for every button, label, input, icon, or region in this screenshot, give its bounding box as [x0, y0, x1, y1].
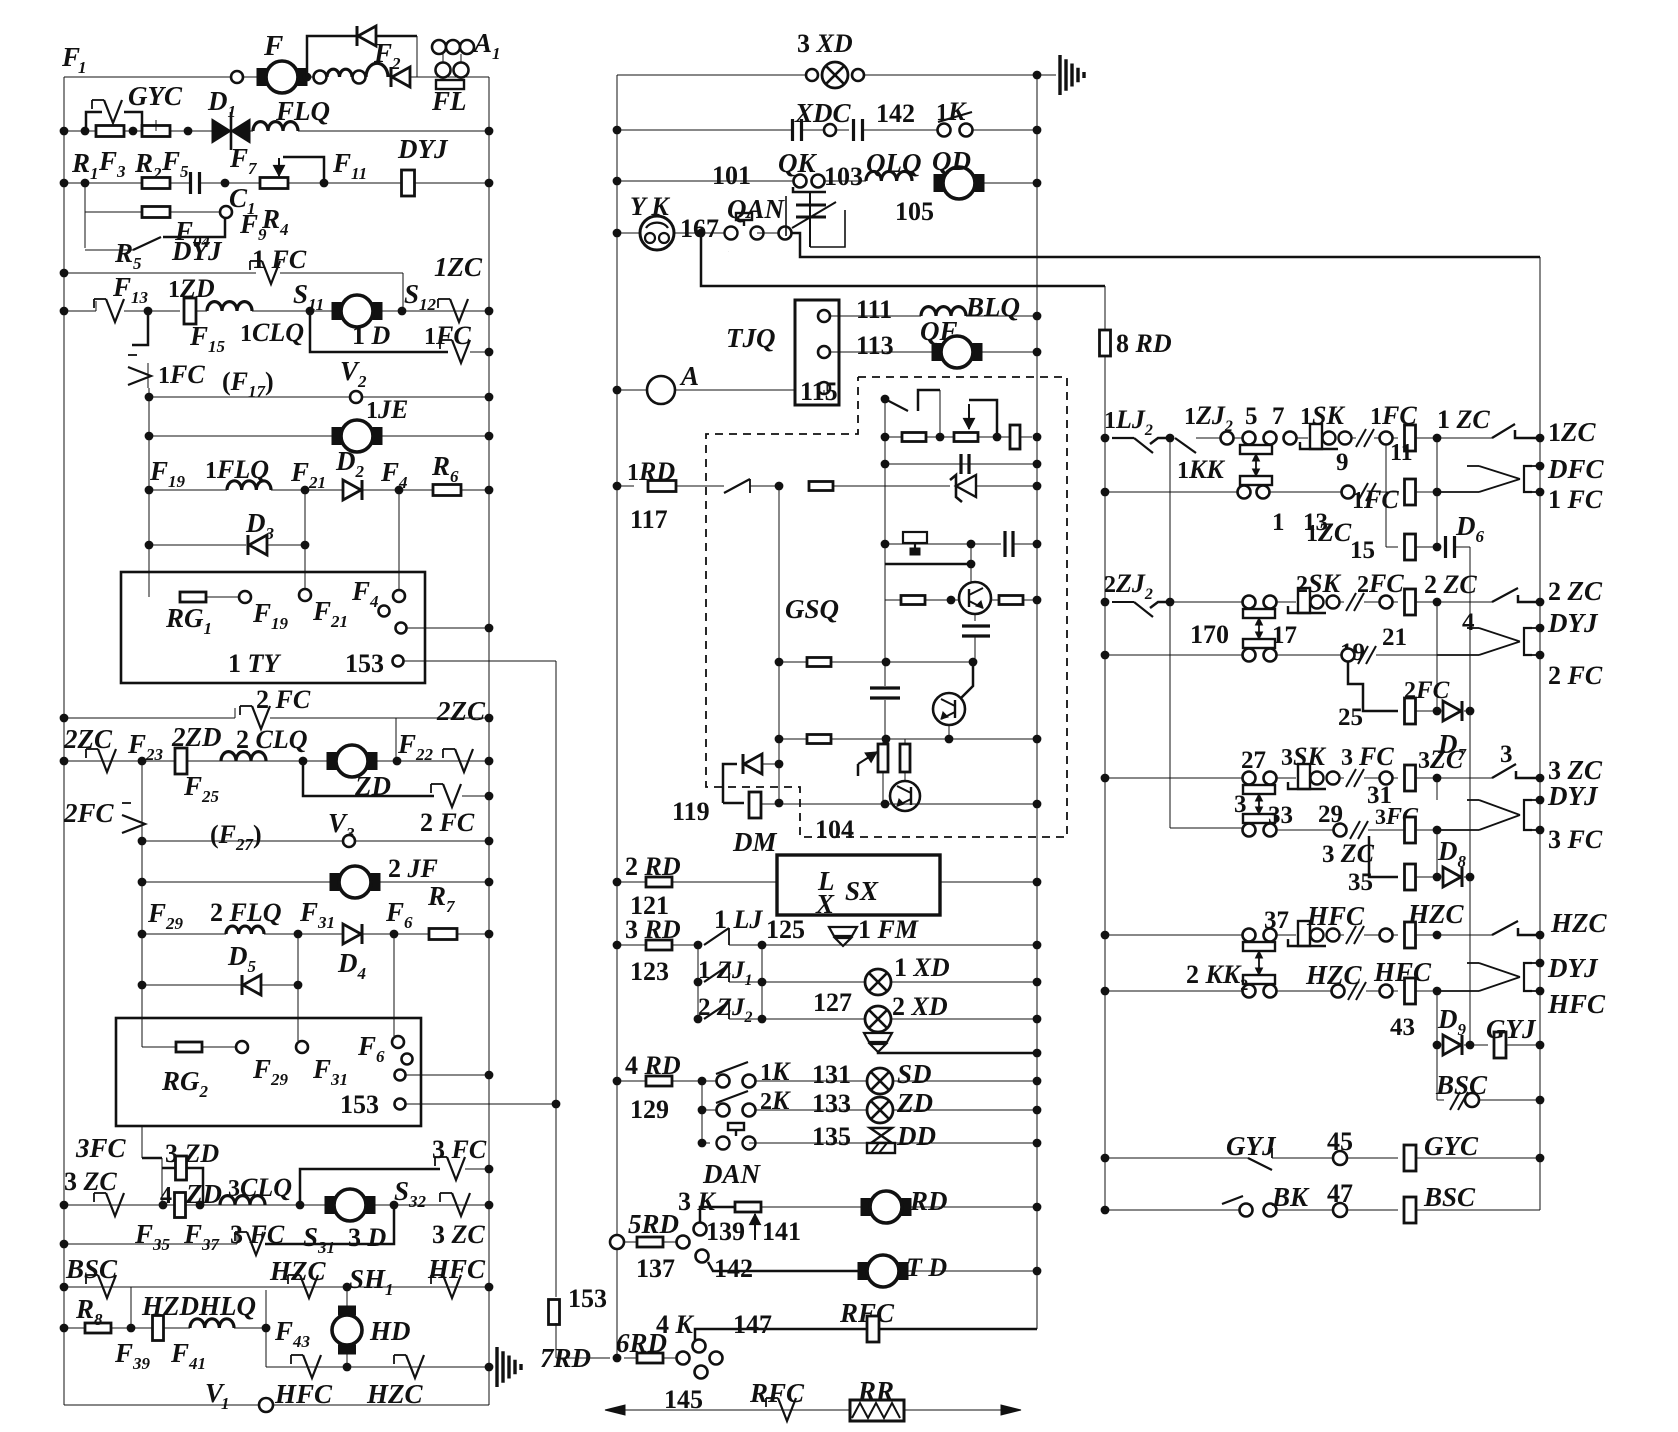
svg-text:BSC: BSC [1423, 1182, 1476, 1212]
svg-text:DYJ: DYJ [1547, 953, 1599, 983]
transistor GSQ V1 [959, 582, 991, 614]
terminal 1KK l [1238, 486, 1251, 499]
wire row390 [617, 389, 647, 391]
svg-text:HFC: HFC [1547, 989, 1606, 1019]
node [698, 1139, 707, 1148]
svg-text:2 RD: 2 RD [625, 852, 681, 881]
svg-text:1 FC: 1 FC [252, 245, 307, 274]
node [552, 1100, 561, 1109]
wire [729, 944, 1037, 946]
node [60, 1283, 69, 1292]
node [881, 540, 890, 549]
wire [1276, 829, 1333, 831]
wire [1416, 990, 1437, 992]
svg-text:141: 141 [762, 1217, 801, 1246]
node [1433, 826, 1442, 835]
node [775, 799, 784, 808]
switch 2K [716, 1091, 748, 1103]
wire [304, 572, 306, 589]
node [881, 460, 890, 469]
terminal 137 [677, 1236, 690, 1249]
svg-text:3 ZD: 3 ZD [165, 1139, 219, 1168]
resistor 3K [735, 1202, 761, 1212]
wire row75 [617, 74, 806, 76]
terminal RG2 out [395, 1070, 406, 1081]
node [1101, 987, 1110, 996]
connector ticks 5 [1346, 769, 1364, 787]
node [485, 757, 494, 766]
wire [206, 596, 239, 598]
terminal 3XD r [852, 69, 864, 81]
node [485, 127, 494, 136]
wire into RG2 [141, 1018, 143, 1047]
wire row1143 [749, 1142, 1037, 1144]
switch 1ZC blade [1492, 424, 1515, 438]
wire [1276, 654, 1341, 656]
node [1166, 598, 1175, 607]
capacitor D6 [1446, 536, 1455, 558]
contact HZC low [394, 1355, 424, 1378]
node [485, 1283, 494, 1292]
switch 2ZC blade [1492, 588, 1518, 602]
node [262, 1324, 271, 1333]
connector ticks 6 [1350, 821, 1368, 839]
wire [970, 544, 972, 564]
node [1033, 71, 1042, 80]
fuse g1 a [1405, 425, 1416, 451]
node [1033, 596, 1042, 605]
svg-text:153: 153 [340, 1090, 379, 1119]
svg-text:137: 137 [636, 1254, 675, 1283]
node [138, 837, 147, 846]
fuse g4 b [1405, 978, 1416, 1004]
resistor F04 [142, 207, 170, 218]
wire x1170 vertical [1169, 438, 1171, 828]
wire [877, 1032, 879, 1034]
wire row655 ext [1376, 654, 1437, 656]
switch 1ZJ1 [704, 965, 729, 982]
svg-text:3CLQ: 3CLQ [228, 1173, 292, 1202]
wire row492 [1105, 491, 1238, 493]
svg-text:105: 105 [895, 197, 934, 226]
svg-text:111: 111 [856, 295, 892, 324]
wire [307, 76, 313, 78]
diode D9 [1443, 1035, 1462, 1055]
wire [1347, 1157, 1398, 1159]
wire [925, 599, 959, 601]
switch 1K [938, 112, 972, 122]
node [1033, 878, 1042, 887]
terminal QK b [812, 175, 825, 188]
wire [297, 1018, 299, 1041]
svg-text:ZD: ZD [185, 1179, 222, 1209]
switch 2ZJ2 blade [1112, 602, 1153, 617]
relay coil BSC [1404, 1197, 1416, 1223]
pushbutton DAN [717, 1123, 756, 1150]
lamp ZD [867, 1097, 893, 1123]
node [1101, 1206, 1110, 1215]
capacitor XDC a [793, 119, 802, 141]
node [1536, 488, 1545, 497]
contact 1FC lower [440, 340, 470, 363]
controller contact 1KK [1240, 445, 1272, 485]
wire row311 a [64, 310, 96, 312]
svg-text:7: 7 [1272, 403, 1285, 430]
terminal BK a [1240, 1204, 1253, 1217]
connector ticks 2 [1358, 483, 1376, 501]
wire x298 down [297, 934, 299, 1018]
wire [371, 881, 489, 883]
wire row1019 [729, 1018, 1037, 1020]
wire [1364, 777, 1379, 779]
resistor GSQ4 [809, 482, 833, 491]
wire [1516, 771, 1540, 778]
svg-text:GYC: GYC [1424, 1131, 1479, 1161]
node [882, 658, 891, 667]
wire [1276, 1209, 1333, 1211]
switch HZC blade [1492, 921, 1518, 935]
svg-text:FLQ: FLQ [275, 96, 330, 126]
svg-text:1ZD: 1ZD [168, 274, 215, 303]
wire [966, 315, 1037, 317]
node [81, 127, 90, 136]
wire [1364, 601, 1379, 603]
wire R5 [85, 249, 133, 251]
svg-text:HFC: HFC [427, 1254, 486, 1284]
svg-text:103: 103 [824, 162, 863, 191]
svg-text:DYJ: DYJ [397, 134, 449, 164]
svg-text:1K: 1K [760, 1057, 791, 1086]
terminal BSC [1465, 1093, 1479, 1107]
connector ticks 7 [1346, 926, 1364, 944]
svg-text:QAN: QAN [727, 194, 786, 224]
terminal 45 [1333, 1151, 1347, 1165]
svg-text:1FLQ: 1FLQ [205, 455, 269, 484]
node [1433, 707, 1442, 716]
node [1536, 826, 1545, 835]
contact right [440, 1193, 470, 1216]
zener diode GSQ [950, 475, 976, 502]
terminal 3FC [1380, 772, 1393, 785]
wire GSQ row464 [885, 463, 1037, 465]
svg-text:3 K: 3 K [678, 1187, 717, 1216]
motor 3D [325, 1189, 375, 1221]
controller contact 170 [1243, 609, 1275, 648]
resistor RR [850, 1400, 904, 1421]
wire 153 out [404, 660, 556, 662]
wire [982, 351, 1037, 353]
diode D8 [1443, 867, 1462, 887]
terminal FL a [432, 40, 446, 54]
svg-text:HZC: HZC [366, 1379, 423, 1409]
svg-text:RD: RD [909, 1186, 948, 1216]
wire x305 down [304, 490, 306, 572]
box SX [777, 855, 940, 915]
fuse 7RD [549, 1300, 560, 1325]
svg-text:BSC: BSC [65, 1254, 118, 1284]
svg-text:1 D: 1 D [352, 321, 391, 350]
svg-text:3: 3 [1234, 791, 1247, 818]
motor 1D [332, 295, 382, 327]
wire GSQ row739 [779, 738, 1037, 740]
svg-text:GSQ: GSQ [785, 594, 839, 624]
wire 139 to 3K [700, 1207, 735, 1223]
terminal F31 RG2 [296, 1041, 308, 1053]
capacitor C1 [191, 172, 200, 194]
node [1033, 800, 1042, 809]
node [343, 1283, 352, 1292]
wire pot bracket [969, 400, 997, 433]
diode D7 [1443, 701, 1462, 721]
wire [470, 351, 489, 353]
wire ZD bypass [303, 761, 434, 796]
wire 1D lower bypass [310, 311, 448, 352]
switch 1KK blade [1175, 438, 1196, 453]
wire row311 right [380, 310, 489, 312]
svg-text:2 CLQ: 2 CLQ [236, 725, 308, 754]
wire [761, 803, 817, 805]
terminal 1ZJ2 [1221, 432, 1234, 445]
node [1101, 434, 1110, 443]
horn 2FM [864, 1033, 892, 1052]
box RG2 [116, 1018, 421, 1126]
terminal circle before motor F [231, 71, 243, 83]
svg-text:HZC: HZC [1550, 908, 1607, 938]
wire GYC bracket [86, 112, 102, 131]
wire [756, 1080, 1037, 1082]
node [1536, 1154, 1545, 1163]
wire [1437, 934, 1492, 936]
wire [1392, 437, 1398, 439]
node [485, 714, 494, 723]
resistor R7 [429, 929, 457, 940]
node [145, 486, 154, 495]
terminal A [647, 376, 675, 404]
wire [250, 130, 253, 132]
svg-text:117: 117 [630, 505, 668, 534]
box 1TY [121, 572, 425, 683]
fuse g3 c [1405, 864, 1416, 890]
wire x394 down [393, 934, 395, 1018]
node [1033, 482, 1042, 491]
wire [974, 637, 976, 662]
wire row718 right [270, 717, 489, 719]
node [613, 126, 622, 135]
terminal TJQ 111 [818, 310, 830, 322]
wire tick [236, 1234, 238, 1244]
wire [243, 76, 258, 78]
wire FL [460, 77, 462, 80]
FL box [436, 80, 464, 89]
terminal [1284, 432, 1297, 445]
fuse g1 c [1405, 534, 1416, 560]
terminal 37 d [1264, 985, 1277, 998]
terminal 37 b [1264, 929, 1277, 942]
contact 3ZC [94, 1193, 124, 1216]
terminal 170 c [1243, 649, 1256, 662]
wire [1416, 876, 1437, 878]
svg-text:131: 131 [812, 1060, 851, 1089]
node [485, 792, 494, 801]
wire down to 1D [402, 273, 404, 311]
wire x1437 g4 [1436, 991, 1438, 1045]
connector ticks 4 [1358, 646, 1376, 664]
transfer switch DYJ g4 [1437, 963, 1540, 991]
wire row233 [617, 232, 640, 234]
diode D5 [242, 975, 261, 995]
switch 2SK [1288, 588, 1340, 613]
node [1101, 774, 1110, 783]
terminal FL d [436, 63, 451, 78]
wire x148 down [132, 311, 148, 345]
svg-text:(F27): (F27) [210, 820, 262, 854]
wire [265, 1328, 267, 1367]
svg-text:4: 4 [160, 1183, 172, 1209]
node [1536, 1041, 1545, 1050]
wire [264, 933, 431, 935]
wire measure line [617, 1409, 1010, 1411]
contact F13 [94, 299, 124, 322]
terminal 170 a [1243, 596, 1256, 609]
wire 1TY out [407, 627, 489, 629]
terminal 1KK r [1257, 486, 1270, 499]
svg-text:X: X [815, 889, 835, 919]
wire [1374, 437, 1379, 439]
terminal 4K b [710, 1352, 723, 1365]
node [613, 941, 622, 950]
node [1033, 978, 1042, 987]
controller contact 2KK2 [1243, 942, 1275, 984]
wire 3FC bypass [300, 1169, 440, 1205]
terminal 29 [1334, 824, 1347, 837]
node [1536, 651, 1545, 660]
node [1033, 1077, 1042, 1086]
wire [462, 795, 489, 797]
node [694, 941, 703, 950]
svg-text:3 FC: 3 FC [1548, 825, 1603, 854]
node [993, 433, 1002, 442]
node [159, 1201, 168, 1210]
svg-text:HFC: HFC [274, 1379, 333, 1409]
node [1033, 460, 1042, 469]
svg-text:Y K: Y K [630, 192, 670, 221]
connector ticks 9 [1450, 1092, 1468, 1110]
coil 1FLQ [227, 481, 271, 490]
terminal 153 RG2 [395, 1099, 406, 1110]
wire x702 down [701, 1081, 703, 1143]
resistor GSQ5 [901, 596, 925, 605]
wire row212 [85, 211, 143, 213]
svg-text:11: 11 [1390, 440, 1413, 466]
node [758, 978, 767, 987]
wire [1436, 1045, 1438, 1100]
wire RG2 out [406, 1074, 489, 1076]
contact 1FC upper [250, 261, 280, 284]
terminal V3 [343, 835, 355, 847]
svg-text:2K: 2K [760, 1086, 791, 1115]
svg-text:43: 43 [1390, 1014, 1415, 1041]
wire [1368, 829, 1369, 831]
arrowhead right [1001, 1405, 1021, 1415]
fan motor RD [861, 1191, 911, 1223]
wire long 286 [701, 233, 1105, 286]
wire row1329 [695, 1329, 1037, 1341]
terminal F19 in 1TY [239, 591, 251, 603]
node [127, 1324, 136, 1333]
wiper arrow R4 [273, 158, 284, 176]
horn 1FM [829, 927, 857, 946]
svg-text:BLQ: BLQ [965, 292, 1020, 322]
node [1033, 312, 1042, 321]
wire [1296, 437, 1308, 439]
relay 2JF [330, 866, 380, 898]
wire [1112, 437, 1134, 439]
wire row183 mid [200, 182, 402, 184]
capacitor XDC b [854, 119, 863, 141]
svg-text:QD: QD [932, 146, 971, 176]
node [1466, 1041, 1475, 1050]
node [613, 1354, 622, 1363]
resistor F04 upper [142, 178, 170, 189]
wire [1455, 546, 1470, 548]
svg-text:3ZC: 3ZC [1418, 745, 1464, 774]
svg-text:GYJ: GYJ [1226, 1131, 1277, 1161]
wire 3FC drop [141, 1126, 143, 1158]
svg-text:2 ZC: 2 ZC [1548, 576, 1603, 606]
connector ticks 8 [1348, 982, 1366, 1000]
wire [940, 881, 1037, 883]
wire row130 [617, 129, 791, 131]
node [1466, 873, 1475, 882]
wire [1416, 1209, 1540, 1211]
wire middle right bus [1036, 75, 1038, 1329]
terminal 6RD [677, 1352, 690, 1365]
svg-text:1 FC: 1 FC [1548, 485, 1603, 514]
wire [398, 572, 400, 590]
svg-text:21: 21 [1382, 624, 1407, 651]
terminal 7 [1264, 432, 1277, 445]
wire [823, 390, 825, 394]
terminal 1TY mid [379, 606, 390, 617]
connector ticks 3 [1346, 593, 1364, 611]
wire [1233, 437, 1242, 439]
terminal 4K a [693, 1340, 706, 1353]
terminal QK a [794, 175, 807, 188]
svg-text:2 KK2: 2 KK2 [1186, 960, 1248, 994]
svg-text:2FC: 2FC [1357, 569, 1404, 598]
node [967, 560, 976, 569]
node [1033, 1015, 1042, 1024]
svg-text:BK: BK [1271, 1182, 1310, 1212]
wire row778 [1105, 777, 1242, 779]
node [1033, 1139, 1042, 1148]
capacitor GSQ1 [961, 454, 969, 474]
svg-text:5RD: 5RD [628, 1209, 679, 1239]
wire F2 bypass right [416, 36, 418, 77]
wire [675, 389, 795, 391]
terminal 139 [694, 1223, 707, 1236]
terminal 27 c [1243, 824, 1256, 837]
valve D1 [212, 112, 250, 150]
wire F43 bracket [265, 1290, 267, 1328]
resistor GSQ8 [807, 735, 831, 744]
wire FL [460, 54, 462, 63]
node [1433, 434, 1442, 443]
wire [1416, 601, 1437, 603]
node [296, 1201, 305, 1210]
node [390, 1201, 399, 1210]
node [60, 1201, 69, 1210]
